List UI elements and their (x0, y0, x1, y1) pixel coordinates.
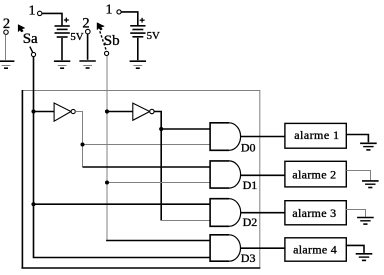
svg-text:5V: 5V (70, 31, 83, 43)
svg-text:alarme 1: alarme 1 (294, 128, 339, 142)
svg-text:Sb: Sb (104, 33, 120, 49)
svg-text:1: 1 (29, 4, 36, 19)
svg-text:Sa: Sa (23, 31, 38, 47)
svg-text:5V: 5V (147, 30, 160, 42)
svg-text:alarme 3: alarme 3 (292, 206, 336, 220)
svg-text:D0: D0 (241, 140, 256, 154)
svg-text:D3: D3 (241, 251, 256, 265)
svg-text:D2: D2 (243, 215, 258, 229)
svg-text:alarme 4: alarme 4 (293, 243, 337, 257)
svg-text:alarme 2: alarme 2 (292, 167, 336, 181)
svg-text:D1: D1 (243, 178, 258, 192)
svg-text:1: 1 (106, 3, 113, 18)
